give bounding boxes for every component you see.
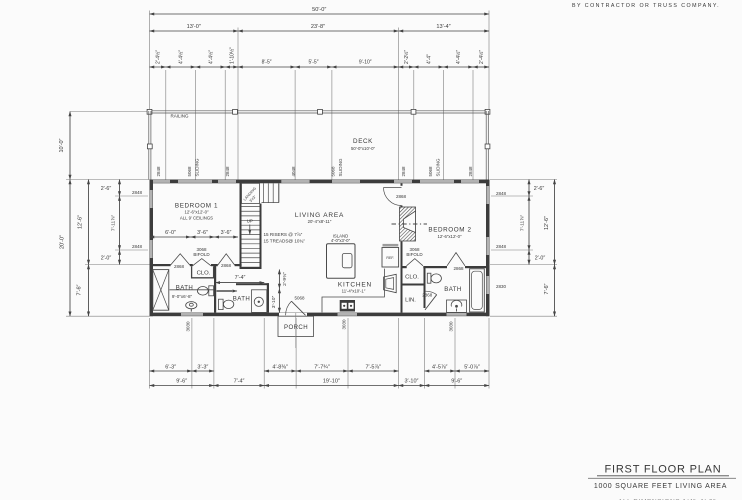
extension line bottom x264.2 xyxy=(263,318,265,389)
extension line y196 left xyxy=(115,195,148,197)
toilet bath3 xyxy=(427,273,431,283)
svg-text:7′-11⅞″: 7′-11⅞″ xyxy=(520,215,526,231)
extension line x413.8 xyxy=(413,70,415,180)
dimension 2&#8242;-4&#189;&#8243; xyxy=(473,66,489,68)
svg-text:7′-6″: 7′-6″ xyxy=(544,283,550,294)
extension line x295.1 xyxy=(294,70,296,180)
svg-text:2′-4½″: 2′-4½″ xyxy=(155,50,162,64)
svg-text:BATH: BATH xyxy=(444,286,461,293)
dimension 4&#8242;-4&#8243; xyxy=(414,66,444,68)
extension line right end top xyxy=(488,11,490,111)
svg-text:BATH: BATH xyxy=(176,285,193,292)
svg-text:3030: 3030 xyxy=(342,319,347,330)
svg-text:2′-9¾″: 2′-9¾″ xyxy=(282,272,288,286)
dimension 7'-11 7/8" left xyxy=(119,196,121,250)
svg-text:15 RISERS @ 7⅞″: 15 RISERS @ 7⅞″ xyxy=(264,232,303,237)
svg-text:1000 SQUARE FEET LIVING AREA: 1000 SQUARE FEET LIVING AREA xyxy=(594,483,727,490)
svg-text:RAILING: RAILING xyxy=(170,114,189,119)
vanity bath2 xyxy=(252,290,267,313)
deck railing post left mid xyxy=(147,144,152,149)
dimension 8&#8242;-5&#8243; xyxy=(238,66,295,68)
svg-text:9′-0″x6′-8″: 9′-0″x6′-8″ xyxy=(172,294,193,299)
extension line bottom x213.9 xyxy=(213,318,215,389)
top exterior wall xyxy=(150,180,490,184)
dimension 6'-0" bedroom1 xyxy=(150,236,191,238)
dimension 19&#8242;-10&#8243; bottom row2 xyxy=(264,385,398,387)
linen east wall xyxy=(424,286,426,309)
svg-text:15 TREADS@ 10¾″: 15 TREADS@ 10¾″ xyxy=(264,239,306,244)
deck railing top xyxy=(149,110,490,112)
dimension 2'-9 3/4" xyxy=(278,270,280,289)
svg-text:7′-6″: 7′-6″ xyxy=(77,284,83,295)
dimension 10'-0" deck depth xyxy=(69,112,71,180)
extension line y196 right xyxy=(491,195,533,197)
svg-text:5′-5″: 5′-5″ xyxy=(309,60,319,66)
door arc bedroom2 entry xyxy=(384,188,402,206)
window top wall 420-454 xyxy=(420,180,454,183)
deck railing post x235 xyxy=(233,109,238,114)
window left wall 190-208 xyxy=(150,190,153,208)
extension line bottom x489.0 xyxy=(488,318,490,389)
tub bath1 xyxy=(153,270,169,311)
dimension 7'-6" right xyxy=(554,265,556,317)
deck railing post x487.5 xyxy=(485,109,490,114)
svg-text:23′-8″: 23′-8″ xyxy=(311,24,325,30)
stair east wall xyxy=(260,204,262,269)
extension line y264.5 right xyxy=(490,264,557,266)
svg-text:SLIDING: SLIDING xyxy=(338,158,343,177)
svg-text:2868: 2868 xyxy=(396,194,407,199)
svg-text:2848: 2848 xyxy=(496,244,507,249)
left exterior wall xyxy=(150,180,154,317)
extension line bottom x149.5 xyxy=(149,318,151,389)
window top wall 178-212 xyxy=(178,180,212,183)
porch door 5068 leaf and arc xyxy=(291,301,305,315)
svg-text:UP: UP xyxy=(247,219,253,224)
svg-text:BATH: BATH xyxy=(233,295,250,302)
bedroom1 south wall segment a xyxy=(153,264,171,266)
dimension 2'-6" right xyxy=(528,180,530,197)
extension line y264.5 left xyxy=(85,264,150,266)
stair west wall xyxy=(240,181,242,269)
bedroom2 south wall segment b xyxy=(423,266,447,268)
sink bath1 xyxy=(186,302,197,309)
dimension 5&#8242;-5&#8243; xyxy=(295,66,332,68)
extension line wall top left xyxy=(66,179,150,181)
window top wall 281.3-309.6 xyxy=(281,180,309,183)
svg-text:4′-4″: 4′-4″ xyxy=(426,54,432,64)
svg-text:20′-0″: 20′-0″ xyxy=(60,235,66,249)
window 3030 bottom wall 337.5-357 xyxy=(338,313,358,316)
svg-text:7′-5⅞″: 7′-5⅞″ xyxy=(365,364,381,370)
dimension 20'-0" house depth xyxy=(69,180,71,317)
deck railing post x320 xyxy=(318,109,323,114)
svg-text:3′-6″: 3′-6″ xyxy=(197,230,208,236)
porch centerline xyxy=(295,313,297,348)
dimension 7&#8242;-4&#8243; bottom row2 xyxy=(214,385,264,387)
closet2 east wall xyxy=(424,266,426,286)
dimension 13'-4" xyxy=(399,30,490,32)
extension line bottom x296.1 xyxy=(295,318,297,389)
door bath3 leaf xyxy=(425,295,437,310)
dimension 3&#8242;-3&#8243; bottom row1 xyxy=(192,370,214,372)
svg-text:BEDROOM 2: BEDROOM 2 xyxy=(428,226,471,233)
dimension 4&#8242;-8&#8540;&#8243; bottom row1 xyxy=(264,370,296,372)
dimension 2'-6" left xyxy=(119,180,121,197)
svg-text:12′-6″: 12′-6″ xyxy=(78,215,84,229)
svg-text:2′-2½″: 2′-2½″ xyxy=(403,50,410,64)
svg-text:5068: 5068 xyxy=(330,166,335,177)
extension line x225.2 xyxy=(224,70,226,180)
bifold 3068 bedroom1 closet xyxy=(193,259,212,266)
dimension 4&#8242;-5&#8542;&#8243; bottom row1 xyxy=(425,370,456,372)
dimension 9&#8242;-10&#8243; xyxy=(332,66,399,68)
svg-text:4′-4½″: 4′-4½″ xyxy=(207,50,214,64)
svg-text:4′-5⅞″: 4′-5⅞″ xyxy=(432,364,448,370)
svg-text:9′-6″: 9′-6″ xyxy=(451,379,462,385)
extension line x331.9 xyxy=(331,70,333,180)
svg-text:2′-6″: 2′-6″ xyxy=(101,186,112,192)
svg-text:7′-4″: 7′-4″ xyxy=(235,275,246,281)
svg-text:2848: 2848 xyxy=(132,244,143,249)
kitchen island xyxy=(327,244,356,278)
window left wall 240-258 xyxy=(150,240,153,258)
extension line bottom x191.9 xyxy=(191,318,193,389)
svg-text:10′-0″: 10′-0″ xyxy=(59,138,65,152)
svg-text:4′-0″x3′-0″: 4′-0″x3′-0″ xyxy=(331,238,351,243)
svg-text:12′-6″x12′-0″: 12′-6″x12′-0″ xyxy=(184,210,208,215)
svg-text:SLIDING: SLIDING xyxy=(435,158,440,177)
svg-text:5068: 5068 xyxy=(187,166,192,177)
dimension 2'-0" right xyxy=(528,250,530,265)
svg-text:1′-10½″: 1′-10½″ xyxy=(229,47,236,64)
kitchen sink xyxy=(384,274,397,292)
window top wall 461-479 xyxy=(461,180,479,183)
svg-text:6′-3″: 6′-3″ xyxy=(165,364,176,370)
svg-text:LIN.: LIN. xyxy=(405,297,416,303)
dimension 4&#8242;-4&#189;&#8243; xyxy=(196,66,226,68)
svg-text:7′-11⅞″: 7′-11⅞″ xyxy=(110,215,116,231)
svg-text:2848: 2848 xyxy=(132,190,143,195)
toilet bath2 xyxy=(219,299,224,309)
svg-text:REF.: REF. xyxy=(386,256,394,260)
svg-text:4′-8⅜″: 4′-8⅜″ xyxy=(272,364,288,370)
dimension 3&#8242;-10&#8243; bottom row2 xyxy=(399,385,425,387)
svg-text:3′-10″: 3′-10″ xyxy=(271,296,277,309)
dimension 3'-6" bedroom1 b xyxy=(214,236,238,238)
svg-text:2848: 2848 xyxy=(496,191,507,196)
dimension 2&#8242;-2&#189;&#8243; xyxy=(399,66,414,68)
deck railing post x413.5 xyxy=(411,109,416,114)
svg-text:BIFOLD: BIFOLD xyxy=(406,252,423,257)
fireplace xyxy=(400,207,416,241)
range xyxy=(340,300,355,312)
svg-text:50′-0″: 50′-0″ xyxy=(312,7,326,13)
bottom exterior wall xyxy=(150,313,490,317)
extension line bottom x424.5 xyxy=(424,318,426,389)
window 3030 bottom wall 446.5-466.5 xyxy=(447,313,467,316)
extension line x398.5 xyxy=(398,28,400,180)
svg-text:3′-3″: 3′-3″ xyxy=(197,364,208,370)
bedroom2 south wall segment c xyxy=(465,266,486,268)
dimension 7'-11 7/8" right xyxy=(528,196,530,250)
stair south wall xyxy=(240,267,262,269)
window 3030 bottom wall 181-203 xyxy=(181,313,203,316)
kitchen east wall upper stub xyxy=(401,183,403,186)
bedroom1 south wall segment b (closet jamb) xyxy=(190,264,193,266)
svg-text:ALL 9′ CEILINGS: ALL 9′ CEILINGS xyxy=(180,216,213,221)
svg-text:2868: 2868 xyxy=(453,266,464,271)
extension line deck top left xyxy=(70,111,150,113)
dimension 3'-10" xyxy=(278,289,280,313)
dimension 5&#8242;-0&#8542;&#8243; bottom row1 xyxy=(455,370,489,372)
dimension 7&#8242;-7&#190;&#8243; bottom row1 xyxy=(296,370,348,372)
svg-text:CLO.: CLO. xyxy=(405,274,419,280)
bath2 north wall xyxy=(236,283,269,285)
svg-text:FIRST FLOOR PLAN: FIRST FLOOR PLAN xyxy=(604,464,721,476)
svg-text:2868: 2868 xyxy=(422,293,433,298)
svg-text:2830: 2830 xyxy=(496,284,507,289)
window top wall 152-170 xyxy=(152,180,170,183)
svg-text:3′-10″: 3′-10″ xyxy=(405,379,419,385)
svg-text:SLIDING: SLIDING xyxy=(194,158,199,177)
svg-text:BEDROOM 1: BEDROOM 1 xyxy=(175,202,218,209)
svg-text:BY CONTRACTOR OR TRUSS COMPANY: BY CONTRACTOR OR TRUSS COMPANY. xyxy=(572,3,720,9)
extension line x443.3 xyxy=(442,70,444,180)
bath1 vanity counter xyxy=(170,289,214,291)
bath1 east wall xyxy=(214,265,216,313)
kitchen east wall lower stub xyxy=(401,206,403,208)
extension line bottom x398.5 xyxy=(398,318,400,389)
door 2868 bedroom2 xyxy=(447,253,465,266)
extension line y250 right xyxy=(491,249,533,251)
deck railing post right mid xyxy=(485,144,490,149)
svg-text:2848: 2848 xyxy=(156,166,161,177)
stair treads xyxy=(242,206,260,208)
fireplace centerline xyxy=(392,223,428,225)
svg-text:3030: 3030 xyxy=(186,321,191,332)
svg-text:13′-0″: 13′-0″ xyxy=(187,24,201,30)
dimension 13'-0" xyxy=(150,30,239,32)
svg-text:11′-4″x10′-1″: 11′-4″x10′-1″ xyxy=(342,289,366,294)
window right wall 237-255 xyxy=(486,237,489,255)
extension line bottom x455 xyxy=(454,318,456,389)
dimension 2&#8242;-4&#189;&#8243; xyxy=(150,66,166,68)
dimension 7'-6" left xyxy=(88,265,90,317)
svg-text:3030: 3030 xyxy=(449,321,454,332)
deck railing left xyxy=(148,111,150,180)
svg-text:9′-10″: 9′-10″ xyxy=(359,60,372,66)
svg-text:5′-0⅞″: 5′-0⅞″ xyxy=(464,364,480,370)
svg-text:13′-4″: 13′-4″ xyxy=(436,24,450,30)
window top wall 218-236 xyxy=(218,180,236,183)
dimension 2'-0" left xyxy=(119,250,121,265)
dimension 12'-6" left xyxy=(88,180,90,265)
svg-text:5068: 5068 xyxy=(428,166,433,177)
extension line wall top right xyxy=(490,179,557,181)
svg-text:BIFOLD: BIFOLD xyxy=(193,252,210,257)
svg-text:2′-4½″: 2′-4½″ xyxy=(478,50,485,64)
svg-text:2848: 2848 xyxy=(468,166,473,177)
svg-text:DECK: DECK xyxy=(353,138,373,145)
bedroom1 south wall segment d xyxy=(235,264,242,266)
extension line bottom x348 xyxy=(347,318,349,389)
extension line wall bottom left xyxy=(66,315,150,317)
svg-text:4′-4½″: 4′-4½″ xyxy=(455,50,462,64)
extension line x238 xyxy=(237,28,239,180)
closet1 walls xyxy=(192,266,214,278)
svg-text:7′-4″: 7′-4″ xyxy=(234,379,245,385)
porch outline xyxy=(278,316,314,336)
window right wall 276-294 xyxy=(486,276,489,294)
svg-text:CLO.: CLO. xyxy=(197,270,211,276)
svg-text:9′-6″: 9′-6″ xyxy=(176,379,187,385)
svg-text:12′-6″: 12′-6″ xyxy=(544,216,550,230)
dimension 3'-6" bedroom1 a xyxy=(191,236,215,238)
tub bath3 xyxy=(470,269,485,312)
extension line wall bottom right xyxy=(490,315,557,317)
window top wall 332-360 xyxy=(332,180,360,183)
stair up arrow xyxy=(249,225,251,235)
svg-text:2868: 2868 xyxy=(221,263,232,268)
dimension 7'-4" hall xyxy=(215,282,264,284)
stair upper flight xyxy=(263,183,265,202)
svg-text:5068: 5068 xyxy=(294,295,305,300)
svg-text:KITCHEN: KITCHEN xyxy=(338,282,372,289)
dimension 12'-6" right xyxy=(554,180,556,265)
extension line x195.5 xyxy=(195,70,197,180)
extension line x165.8 xyxy=(165,70,167,180)
extension line left end top xyxy=(149,11,151,111)
right exterior wall xyxy=(486,180,490,317)
svg-text:7′-7¾″: 7′-7¾″ xyxy=(314,364,330,370)
extension line x473.0 xyxy=(472,70,474,180)
svg-text:8′-5″: 8′-5″ xyxy=(262,60,272,66)
vanity bath3 xyxy=(447,300,467,312)
svg-text:6′-0″: 6′-0″ xyxy=(165,230,176,236)
dimension 9&#8242;-6&#8243; bottom row2 xyxy=(150,385,214,387)
toilet bath1 xyxy=(209,286,214,296)
stair landing xyxy=(242,183,260,203)
svg-text:2848: 2848 xyxy=(225,166,230,177)
dimension 50'-0" overall width xyxy=(150,13,490,15)
bedroom2 south wall segment a xyxy=(403,266,407,268)
door 2868 bedroom1 west xyxy=(171,254,190,265)
window right wall 186-204 xyxy=(486,186,489,204)
dimension 6&#8242;-3&#8243; bottom row1 xyxy=(150,370,192,372)
bifold 3068 bedroom2 closet xyxy=(407,259,424,266)
bath2 east wall xyxy=(267,283,269,312)
deck railing right xyxy=(485,111,487,180)
extension line y250 left xyxy=(115,249,148,251)
door 2868 bedroom1 east xyxy=(218,254,235,265)
svg-text:12′-6″x12′-0″: 12′-6″x12′-0″ xyxy=(437,234,461,239)
svg-text:19′-10″: 19′-10″ xyxy=(323,379,340,385)
svg-text:20′-4″x8′-11″: 20′-4″x8′-11″ xyxy=(308,219,332,224)
cabinet strip above refrigerator xyxy=(383,244,399,247)
deck railing post x149.5 xyxy=(147,109,152,114)
bedroom1 south wall segment c xyxy=(211,264,218,266)
svg-text:4048: 4048 xyxy=(291,166,296,177)
dimension 7&#8242;-5&#8542;&#8243; bottom row1 xyxy=(348,370,399,372)
kitchen east wall xyxy=(401,242,403,313)
kitchen counter xyxy=(322,269,384,313)
door opening bottom wall porch xyxy=(279,313,307,316)
svg-text:2868: 2868 xyxy=(174,264,185,269)
svg-text:2′-6″: 2′-6″ xyxy=(534,186,545,192)
refrigerator xyxy=(382,248,399,268)
svg-text:2848: 2848 xyxy=(401,166,406,177)
svg-text:3′-6″: 3′-6″ xyxy=(221,230,232,236)
dimension 4&#8242;-4&#189;&#8243; xyxy=(166,66,196,68)
svg-text:2′-0″: 2′-0″ xyxy=(535,256,546,262)
dimension 23'-8" xyxy=(238,30,399,32)
bath2 door swing arrow xyxy=(217,290,233,292)
closet2 south wall xyxy=(403,284,426,286)
svg-text:4′-4½″: 4′-4½″ xyxy=(178,50,185,64)
svg-text:2′-0″: 2′-0″ xyxy=(101,256,112,262)
dimension 1&#8242;-10&#189;&#8243; xyxy=(225,66,238,68)
dimension 9&#8242;-6&#8243; bottom row2 xyxy=(425,385,490,387)
svg-text:50′-0″x10′-0″: 50′-0″x10′-0″ xyxy=(351,146,375,151)
window top wall 394-412 xyxy=(394,180,412,183)
dimension 4&#8242;-4&#189;&#8243; xyxy=(443,66,473,68)
